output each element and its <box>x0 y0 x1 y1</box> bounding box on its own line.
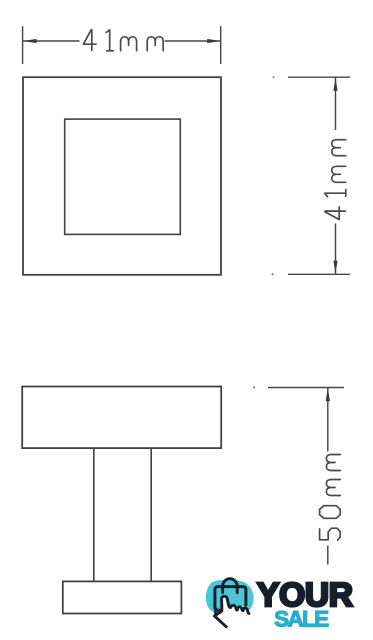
svg-text:SALE: SALE <box>274 607 329 632</box>
